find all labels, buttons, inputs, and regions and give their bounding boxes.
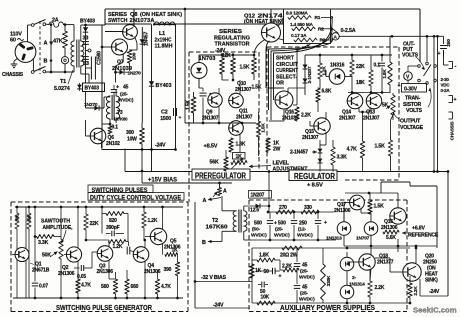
svg-text:300: 300	[126, 130, 134, 136]
wire Q7 base	[101, 46, 112, 49]
svg-text:PREREGULATOR: PREREGULATOR	[195, 171, 246, 180]
label Q20 2N250	[423, 254, 438, 284]
svg-text:0-2A: 0-2A	[441, 88, 451, 93]
resistor 56K	[210, 150, 229, 171]
label Q12 2N174	[244, 14, 284, 26]
wire Q5	[145, 207, 165, 270]
label Q15 2N1307	[302, 129, 319, 141]
wire Q18 Q20	[375, 246, 448, 296]
zener 1N316	[326, 69, 352, 85]
resistor 1K 2W	[266, 138, 281, 153]
capacitor 0.1	[374, 55, 386, 92]
svg-text:SeekIC.com: SeekIC.com	[413, 306, 457, 315]
svg-text:45: 45	[302, 285, 308, 291]
svg-text:WVDC): WVDC)	[297, 233, 313, 239]
node A arrow	[203, 197, 222, 204]
resistor 1.5K mid	[256, 112, 260, 156]
transformer T3 core	[112, 95, 114, 120]
diode BY403 mid	[149, 81, 154, 86]
svg-text:T1: T1	[60, 79, 66, 85]
resistor 1K pot	[231, 153, 247, 169]
svg-text:2N1307: 2N1307	[202, 116, 219, 122]
transformer T1 core	[77, 40, 79, 68]
capacitor 0.05	[74, 252, 100, 280]
svg-text:SELECT-: SELECT-	[276, 74, 297, 80]
wire +15V bias	[141, 170, 232, 183]
terminal plus	[449, 96, 457, 104]
svg-text:SINK): SINK)	[425, 278, 438, 284]
label L1 2x19HC 11.8MH	[155, 31, 173, 50]
resistor 1.5K reg	[375, 115, 394, 172]
svg-text:1.5K: 1.5K	[252, 85, 262, 91]
resistor 1.5K top	[252, 55, 257, 80]
svg-text:2N1073A: 2N1073A	[130, 18, 155, 24]
resistor 22K reg	[350, 55, 354, 92]
diode 1N207 aux	[244, 170, 271, 212]
svg-text:1N707: 1N707	[356, 236, 370, 242]
potentiometer 3.3K 50K	[50, 207, 63, 298]
wire Q9 emitter	[218, 106, 220, 123]
wire 820 cap joins	[102, 207, 128, 234]
label CHASSIS	[2, 72, 24, 78]
diode 1N457	[140, 27, 145, 123]
label 1.5K mid vertical	[252, 85, 267, 133]
svg-text:-24V: -24V	[215, 48, 226, 54]
label Q9 2N1307	[202, 110, 219, 122]
svg-text:A: A	[44, 41, 48, 47]
svg-text:(25-: (25-	[300, 269, 308, 275]
wire bottom AC	[46, 71, 74, 73]
wire Q2	[64, 207, 78, 266]
wire -32V bias	[194, 280, 252, 283]
svg-text:9.1: 9.1	[112, 125, 119, 131]
label -32V BIAS	[201, 275, 226, 281]
label -24V left	[155, 143, 166, 149]
diode BY403 top	[83, 27, 88, 32]
capacitor 250	[438, 37, 453, 58]
svg-text:100: 100	[132, 52, 138, 60]
diode glyph by BY403 box	[77, 83, 82, 91]
svg-text:1.2K: 1.2K	[148, 218, 158, 224]
svg-text:(50-: (50-	[252, 227, 260, 233]
wire reg top rail	[305, 54, 392, 57]
transistor Q16b 2N1306	[390, 208, 406, 224]
capacitor 1	[199, 88, 212, 123]
svg-text:22K: 22K	[90, 221, 99, 227]
wire Q8 base	[105, 31, 124, 33]
svg-text:R1: R1	[315, 15, 321, 21]
label Q16 2N1039	[282, 110, 299, 122]
svg-text:4.7K: 4.7K	[347, 147, 358, 153]
wire stairs bottom right	[381, 182, 437, 248]
svg-text:+: +	[454, 97, 457, 103]
resistor 20ohm 2W	[280, 246, 302, 259]
svg-text:OR: OR	[276, 81, 284, 87]
svg-text:2N102: 2N102	[106, 141, 120, 147]
box SWITCHING PULSES	[88, 185, 153, 194]
wire Q8 collector top	[134, 22, 136, 24]
svg-text:2A: 2A	[52, 18, 59, 24]
svg-text:250: 250	[446, 39, 452, 47]
resistor 39K SPG	[27, 207, 31, 298]
label 100 vertical	[132, 52, 138, 60]
label Q7 2N1039	[112, 60, 132, 72]
resistor 2.2K aux3	[280, 260, 299, 272]
svg-text:+: +	[279, 274, 282, 280]
svg-text:0.1: 0.1	[374, 63, 381, 69]
aux lower rails	[252, 247, 417, 305]
svg-text:VOLTS: VOLTS	[406, 108, 423, 114]
svg-text:BY403: BY403	[80, 19, 95, 25]
label AUXILIARY POWER SUPPLIES	[280, 303, 375, 312]
svg-text:1K: 1K	[172, 248, 179, 254]
label Q13 2N1307	[363, 110, 380, 122]
svg-text:33: 33	[83, 36, 89, 42]
transistor Q9 2N1307	[208, 93, 222, 107]
capacitor C1590	[86, 51, 103, 80]
switch S1 pole B	[31, 67, 45, 74]
main bottom rail	[125, 149, 449, 173]
meter box 0-30V	[402, 84, 427, 93]
zener 1N1314 b	[340, 285, 354, 299]
svg-text:SISTOR: SISTOR	[403, 102, 421, 108]
label 330 vertical	[15, 214, 20, 222]
resistor 2.2K aux1	[368, 270, 385, 303]
capacitor 45 25WVDC	[111, 85, 134, 104]
svg-text:1N1314: 1N1314	[349, 282, 365, 288]
svg-text:(25-: (25-	[120, 92, 128, 98]
resistor 330K	[321, 248, 326, 303]
resistor box R1 R2 R3	[284, 9, 331, 44]
label 2A	[52, 18, 59, 24]
svg-text:12.6: 12.6	[250, 208, 259, 214]
svg-text:2.2K: 2.2K	[282, 264, 292, 270]
wire Q11 emitter	[236, 120, 240, 152]
svg-text:22K: 22K	[356, 64, 365, 70]
svg-text:A: A	[223, 189, 227, 195]
resistor 390	[164, 255, 180, 299]
label 110V 60~	[10, 32, 24, 44]
transistor Q16 2N1039	[275, 91, 293, 109]
svg-text:L1: L1	[159, 31, 165, 37]
capacitor 50 b	[258, 282, 268, 296]
SPG dashed box	[11, 202, 188, 312]
svg-text:390pF: 390pF	[106, 225, 120, 231]
resistor 300 10W	[140, 128, 145, 172]
capacitor C2 1500	[160, 108, 181, 122]
svg-text:2.2K: 2.2K	[413, 286, 419, 296]
diode 1N270 to T3	[86, 105, 105, 110]
svg-text:45: 45	[123, 85, 129, 91]
trimmer A	[213, 188, 227, 198]
svg-text:2.2K: 2.2K	[301, 113, 311, 119]
svg-text:2N1306: 2N1306	[58, 271, 75, 277]
svg-text:820: 820	[109, 218, 117, 224]
transistor Q15 2N1307	[314, 118, 330, 134]
svg-text:A: A	[203, 198, 207, 204]
svg-text:39K: 39K	[27, 213, 32, 222]
svg-text:CURRENT: CURRENT	[276, 68, 298, 74]
svg-text:-24V: -24V	[155, 143, 166, 149]
resistor 270	[276, 205, 294, 214]
resistor 6.8K	[316, 88, 332, 112]
label Q16b 2N1306	[381, 219, 398, 231]
resistor 4.7K SPG2	[155, 270, 171, 298]
label 12.6	[250, 208, 259, 214]
pilot lamp	[61, 57, 68, 74]
svg-text:(12-: (12-	[298, 227, 306, 233]
label 1N703	[199, 56, 216, 62]
label CHASSIS vertical	[450, 122, 455, 142]
terminal chassis	[449, 112, 453, 119]
label T3 167K60	[114, 110, 129, 122]
svg-text:TRANSISTOR: TRANSISTOR	[215, 42, 250, 48]
resistor R2 1.4 550MA	[290, 22, 324, 33]
label 2-1N457	[290, 150, 317, 156]
wire L1 right	[134, 26, 143, 28]
transistor Q11 2N1307	[229, 121, 244, 136]
svg-text:BY403: BY403	[85, 86, 100, 92]
label TRANSISTOR VOLTS	[403, 88, 431, 114]
svg-text:+: +	[324, 220, 327, 226]
svg-text:AUXILIARY POWER SUPPLIES: AUXILIARY POWER SUPPLIES	[280, 303, 375, 312]
svg-text:2-1N457: 2-1N457	[290, 150, 308, 156]
label SAWTOOTH AMPLITUDE	[41, 219, 73, 244]
wire output columns	[433, 37, 439, 173]
wire Q6 collector	[102, 123, 111, 130]
svg-text:11.8MH: 11.8MH	[155, 44, 173, 50]
wire Q12 base down	[270, 9, 272, 23]
svg-text:+: +	[179, 116, 182, 121]
label -24V aux	[429, 289, 440, 295]
svg-text:167K60: 167K60	[206, 225, 228, 231]
resistor 10K	[257, 295, 275, 306]
svg-text:1N316: 1N316	[330, 63, 345, 69]
wire prereg lower rail	[185, 122, 256, 125]
resistor R1 8.0 120MA	[286, 11, 321, 22]
svg-text:VDC: VDC	[441, 83, 451, 88]
resistor 560	[101, 272, 118, 298]
transistor Q5 2N1306	[150, 228, 166, 244]
resistor 1.8K reg	[388, 55, 392, 93]
svg-text:56K: 56K	[210, 160, 219, 166]
resistor 330 SPG	[15, 207, 19, 298]
wire reg emitters	[359, 107, 370, 113]
svg-text:(25-: (25-	[275, 227, 283, 233]
wire Q12 collector	[278, 18, 284, 27]
wire Q6 base left	[86, 120, 91, 136]
node B arrow	[202, 240, 222, 246]
label box REGULATOR	[289, 170, 337, 181]
label SHORT CIRCUIT CURRENT SELECTOR	[276, 56, 299, 87]
switch S1 dashed link	[39, 21, 41, 74]
svg-text:B: B	[202, 240, 206, 246]
potentiometer 5K	[382, 93, 395, 120]
svg-text:2-1N207: 2-1N207	[307, 66, 313, 84]
ammeter wires	[321, 16, 338, 41]
label Q2 2N1306	[58, 265, 75, 277]
svg-text:SWITCHING PULSE GENERATOR: SWITCHING PULSE GENERATOR	[56, 303, 153, 312]
svg-text:2N1307: 2N1307	[235, 87, 252, 93]
label Q4 2N1306	[144, 263, 161, 275]
wire -24V rail left	[102, 148, 177, 151]
svg-text:CHASSIS: CHASSIS	[2, 72, 24, 78]
svg-text:SHORT: SHORT	[276, 56, 295, 62]
label 2.2K vertical	[413, 286, 419, 296]
svg-text:1.2K: 1.2K	[322, 66, 328, 76]
svg-text:(ON HEAT SINK): (ON HEAT SINK)	[244, 19, 283, 25]
resistor 3.3K reg	[331, 140, 347, 172]
wire Q4	[143, 239, 146, 298]
svg-text:330: 330	[304, 205, 312, 211]
wire aux cap bottom rail	[244, 239, 336, 242]
wire 1N316 column	[320, 55, 352, 77]
label OUT-PUT VOLTS	[402, 42, 419, 59]
transistor Q2 2N1306	[66, 247, 81, 262]
zener 1N707 b	[364, 213, 378, 246]
svg-text:250: 250	[299, 221, 307, 227]
label Q5 2N1306	[164, 239, 181, 251]
resistor 5.6K	[383, 230, 399, 241]
terminal minus	[449, 62, 457, 70]
svg-text:(25-: (25-	[300, 291, 308, 297]
label 1.2K vertical reg	[322, 66, 328, 76]
RC link 1.2K	[109, 240, 135, 255]
AUX dashed box	[249, 200, 407, 312]
resistor 2.2K aux2	[408, 276, 412, 303]
wire regulator to bottom	[269, 44, 305, 122]
svg-text:10W: 10W	[127, 137, 137, 143]
svg-text:CHASSIS: CHASSIS	[450, 122, 455, 141]
wire right edge	[444, 50, 449, 65]
transistor Q10 2N1307	[229, 93, 244, 108]
preregulator dashed box	[189, 52, 259, 202]
resistor 3.3K SPG	[34, 235, 61, 247]
resistor 330 aux	[301, 205, 319, 214]
svg-text:1.8K: 1.8K	[236, 142, 246, 148]
svg-text:1N1313: 1N1313	[326, 236, 342, 242]
svg-text:2N1306: 2N1306	[144, 269, 161, 275]
svg-text:REGULATOR: REGULATOR	[294, 172, 335, 181]
capacitor 45 b	[294, 285, 315, 304]
label 1N1313	[326, 236, 342, 242]
wire L1 left	[137, 26, 152, 28]
svg-text:500: 500	[254, 221, 262, 227]
svg-text:330K: 330K	[326, 275, 332, 286]
label OUTPUT VOLTAGE	[392, 112, 423, 131]
svg-text:1N703: 1N703	[199, 56, 216, 62]
label T1 5.0274	[54, 70, 73, 92]
label Q6 2N102	[106, 135, 120, 147]
resistor 1.2K regulator	[318, 55, 322, 88]
svg-text:2N1307: 2N1307	[363, 116, 380, 122]
svg-text:WVDC): WVDC)	[118, 98, 134, 104]
main box top rail	[105, 8, 420, 10]
capacitor 33 upper	[82, 36, 89, 45]
svg-text:1.5K: 1.5K	[375, 144, 386, 150]
svg-text:1.8K: 1.8K	[382, 69, 388, 79]
label 22K reg	[356, 64, 365, 70]
svg-text:2N1306: 2N1306	[381, 225, 398, 231]
svg-text:1.5K: 1.5K	[261, 123, 267, 133]
wire Q1	[12, 207, 26, 298]
svg-text:1.5K: 1.5K	[186, 100, 192, 110]
resistor 22K SPG	[84, 207, 99, 240]
node A	[44, 41, 54, 47]
label Q3 2N1306	[97, 264, 114, 276]
resistor 2.2K regulator	[295, 107, 312, 121]
svg-text:2N1306: 2N1306	[97, 269, 114, 275]
wire A column	[218, 182, 221, 188]
label Q1 2N671B	[30, 262, 50, 274]
transformer T2 primary	[222, 196, 236, 242]
label +6.8V REFERENCE	[402, 226, 439, 239]
box DUTY CYCLE CONTROL VOLTAGE	[88, 193, 184, 202]
svg-text:1N457: 1N457	[144, 32, 150, 47]
resistor 1.8K aux	[252, 253, 280, 263]
wire Q12 emitter to Rbox	[278, 39, 284, 41]
svg-text:T3: T3	[117, 110, 123, 116]
svg-text:WVDC): WVDC)	[299, 297, 315, 303]
svg-text:-24V: -24V	[213, 303, 224, 309]
transistor Q3 2N1306	[97, 246, 113, 262]
label T2 167K60	[206, 218, 228, 231]
transistor Q17 2N1306	[344, 195, 371, 222]
wire mid column	[141, 123, 143, 128]
label 1.5K top	[240, 65, 250, 71]
transformer T3 secondary	[116, 90, 120, 123]
diodes 2-1N457	[318, 140, 323, 172]
resistor 12K b	[231, 53, 236, 80]
svg-text:2-: 2-	[352, 275, 356, 281]
capacitor 390pF	[106, 225, 124, 236]
zener 1N1314 a	[340, 257, 354, 271]
svg-text:2N1307: 2N1307	[302, 135, 319, 141]
label Q11 2N1307	[236, 109, 253, 121]
wire aux q18 base	[347, 261, 359, 263]
wire aux mid rail	[344, 239, 437, 252]
svg-text:OUTPUT: OUTPUT	[400, 119, 421, 125]
svg-text:3.3K: 3.3K	[38, 240, 49, 246]
label +15V BIAS	[148, 177, 177, 184]
wire Q9 Q10 link	[219, 79, 240, 95]
transistor Q18 2N1377	[359, 248, 375, 281]
ammeter A 0-2.5A	[332, 33, 390, 41]
svg-text:B: B	[44, 59, 48, 65]
transformer T3 primary	[104, 96, 110, 124]
fuse F1 2A	[46, 22, 74, 27]
label 1N316	[330, 63, 345, 69]
svg-text:C2: C2	[161, 110, 168, 116]
AC line plug P1	[15, 42, 36, 63]
svg-text:0.07: 0.07	[39, 284, 48, 290]
svg-text:2.2K: 2.2K	[375, 285, 385, 291]
wire plug to switch	[28, 25, 32, 42]
label 2-1N1314	[349, 275, 365, 288]
svg-text:1.5K: 1.5K	[240, 65, 250, 71]
label 1N457 vertical	[144, 32, 150, 47]
label Q18 2N1377	[377, 254, 394, 266]
voltmeter V	[398, 66, 418, 89]
label 12K	[222, 53, 231, 59]
label Q17 2N1306	[334, 202, 351, 214]
capacitor 0.07	[32, 206, 49, 298]
wire Q8 emitter	[135, 37, 137, 48]
svg-text:2N1307: 2N1307	[236, 114, 253, 120]
wire -24V bottom	[195, 307, 250, 309]
svg-text:2-30: 2-30	[441, 77, 450, 82]
label Q14 2N1307	[339, 110, 356, 122]
